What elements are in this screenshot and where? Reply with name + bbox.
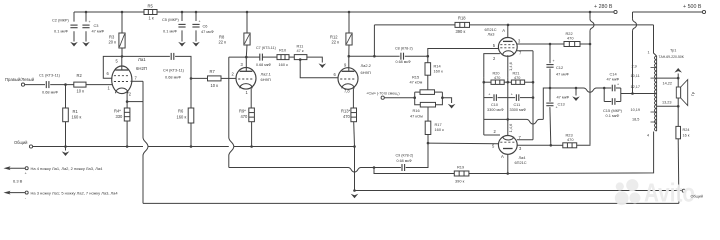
resistor R6: [177, 78, 194, 146]
pin 1 Ла2.1: [246, 88, 252, 108]
svg-text:R9*: R9*: [239, 109, 246, 114]
hop y88 over 590: [584, 88, 597, 92]
heater arrow 2: [4, 191, 29, 200]
wire R24-NFB: [677, 139, 680, 204]
svg-text:+: +: [25, 172, 27, 176]
svg-text:7,8: 7,8: [344, 89, 350, 94]
pin 2 Ла4: [484, 129, 500, 135]
svg-text:A: A: [501, 154, 504, 159]
tap R11 wiper: [299, 58, 338, 77]
capacitor C14: [604, 72, 621, 92]
svg-text:Ла2.1: Ла2.1: [261, 72, 272, 77]
svg-text:160 к: 160 к: [177, 115, 187, 120]
node R22: [549, 43, 552, 46]
capacitor C8: [395, 47, 413, 65]
tap 14,22 wire: [657, 78, 679, 85]
wire node-A line: [546, 87, 584, 89]
svg-text:3300 мкФ: 3300 мкФ: [510, 108, 527, 112]
resistor R18: [455, 16, 470, 35]
capacitor C1: [39, 73, 61, 95]
node gndA: [575, 87, 578, 90]
node C14-left: [603, 87, 606, 90]
svg-text:С1 (КТЗ-11): С1 (КТЗ-11): [39, 73, 61, 78]
wire 280V drop: [590, 12, 594, 144]
svg-text:С9 (К78-2): С9 (К78-2): [396, 154, 414, 158]
pin 1 label: [108, 86, 111, 91]
label Общий right (over watermark): [691, 195, 704, 199]
heater arrow 1: [4, 166, 29, 175]
svg-text:R19: R19: [457, 165, 464, 170]
terminal +500 В: [683, 4, 706, 14]
svg-text:47 к: 47 к: [297, 48, 304, 53]
tap 10,11: [631, 74, 657, 78]
svg-text:0.1 мкФ: 0.1 мкФ: [163, 29, 177, 34]
wire W2 rail: [374, 24, 653, 26]
svg-text:0.68 мкФ: 0.68 мкФ: [256, 63, 271, 67]
svg-text:C3: C3: [94, 23, 99, 28]
svg-text:C6: C6: [203, 24, 208, 29]
node cathode Ла1: [126, 100, 129, 103]
svg-text:Ла2.2: Ла2.2: [361, 63, 372, 68]
resistor R10: [277, 48, 289, 68]
node W2-anode: [373, 55, 376, 58]
capacitor C15: [603, 98, 623, 118]
node gnd-line: [353, 189, 356, 192]
svg-text:R18: R18: [458, 16, 466, 21]
wire anode2-C7: [246, 56, 259, 58]
svg-text:6.3 В: 6.3 В: [13, 179, 23, 184]
watermark avito: [615, 178, 695, 208]
wire input: [25, 84, 45, 86]
svg-text:R20: R20: [493, 72, 500, 76]
wire 500V drop: [633, 12, 637, 94]
node bias-left: [413, 96, 416, 99]
resistor R20: [491, 72, 504, 85]
wire NFB vertical: [143, 81, 148, 203]
wire anode La2.2-C8: [349, 55, 400, 57]
wire grid3: [428, 49, 499, 57]
svg-text:390 к: 390 к: [455, 179, 465, 184]
svg-text:390 к: 390 к: [456, 29, 466, 34]
svg-text:20 к: 20 к: [109, 40, 117, 45]
node bus-R4: [126, 145, 129, 148]
svg-text:+: +: [556, 106, 558, 110]
svg-text:+: +: [617, 83, 619, 87]
resistor R23: [563, 133, 577, 148]
node bias-right: [441, 96, 444, 99]
node grid2: [190, 77, 193, 80]
svg-text:330: 330: [116, 114, 124, 119]
wire tube2-anode-line: [229, 168, 374, 173]
node bus-R1: [64, 145, 67, 148]
node anode Ла2.2: [348, 55, 351, 58]
svg-text:С12: С12: [556, 65, 563, 70]
node anode4: [507, 172, 510, 175]
wire W2-left-drop: [373, 25, 375, 56]
wire crossFB-down: [229, 57, 234, 167]
svg-text:1: 1: [648, 51, 650, 55]
svg-text:Ла3: Ла3: [488, 32, 495, 37]
node C13-bottom: [550, 144, 553, 147]
speaker Гр: [676, 80, 695, 106]
svg-text:470: 470: [241, 114, 249, 119]
node grid4: [427, 142, 430, 145]
svg-text:С10: С10: [491, 103, 498, 107]
svg-text:R5: R5: [148, 4, 154, 9]
svg-text:470: 470: [567, 137, 574, 142]
svg-text:1 к: 1 к: [149, 16, 154, 21]
pin 5 Ла1: [116, 56, 122, 70]
svg-text:1,4,6: 1,4,6: [508, 124, 513, 133]
svg-text:160 к: 160 к: [434, 69, 444, 74]
wire R11-gnd: [307, 57, 322, 62]
wire tap-speaker-top: [677, 78, 679, 87]
wire C1-R2: [50, 84, 74, 86]
vertical k-right: [532, 51, 534, 140]
capacitor C11: [510, 93, 527, 112]
svg-text:На 3 ножку Ла1; 5 ножку Ла2, 7: На 3 ножку Ла1; 5 ножку Ла2, 7 ножку Ла3…: [31, 191, 119, 196]
svg-text:3300 мкФ: 3300 мкФ: [487, 108, 504, 112]
ground R11: [319, 63, 327, 68]
svg-text:10 к: 10 к: [211, 83, 219, 88]
wire anode4-transformer: [508, 132, 654, 174]
svg-text:+ 280 В: + 280 В: [594, 4, 613, 10]
resistor R16 trimmer: [410, 102, 436, 118]
capacitor C4: [163, 53, 185, 80]
tube Ла2.1 6Н9П: [236, 68, 272, 90]
wire R7-tube2: [221, 72, 236, 79]
wire anode1-C4: [122, 55, 170, 57]
svg-text:Правый/Левый: Правый/Левый: [5, 77, 35, 82]
node k-left: [483, 81, 486, 84]
resistor R15 trimmer: [410, 75, 435, 95]
svg-text:Ла1: Ла1: [138, 57, 146, 62]
node bus-R6: [190, 145, 193, 148]
svg-text:47 мкФ: 47 мкФ: [556, 72, 569, 77]
terminal +280 В: [594, 4, 617, 14]
ground C3: [82, 42, 90, 47]
vertical k-left: [483, 78, 485, 135]
capacitor C9: [396, 154, 414, 172]
svg-text:+: +: [199, 20, 201, 24]
wire C9-R17: [406, 143, 428, 167]
resistor R7: [208, 69, 222, 88]
pin 7 Ла4: [517, 135, 533, 140]
wire grid4: [428, 143, 499, 148]
capacitor C6: [192, 12, 213, 42]
wire A3: [502, 25, 508, 38]
svg-text:Тр1: Тр1: [670, 49, 676, 53]
wire y88 cont: [597, 87, 605, 89]
svg-text:На 4 ножку Ла1, Ла2, 2 ножку Л: На 4 ножку Ла1, Ла2, 2 ножку Ла3, Ла4: [31, 166, 104, 171]
node rail-C5: [181, 11, 184, 14]
resistor R19: [454, 165, 469, 184]
ground bus arrow: [62, 147, 70, 157]
resistor R11: [294, 44, 307, 60]
svg-text:0.68 мкФ: 0.68 мкФ: [396, 60, 411, 64]
svg-text:470: 470: [514, 76, 520, 80]
svg-text:10 к: 10 к: [77, 89, 85, 94]
svg-text:470: 470: [343, 114, 351, 119]
tube Ла3 6П21С: [485, 27, 518, 57]
wire NFB bottom: [143, 202, 679, 204]
svg-text:10,11: 10,11: [631, 74, 640, 78]
svg-text:+: +: [511, 93, 513, 97]
svg-text:47 кОм: 47 кОм: [410, 80, 423, 85]
heater text 2: [31, 191, 119, 196]
node rail-280V-drop: [589, 11, 592, 14]
svg-text:47 кОм: 47 кОм: [410, 114, 423, 119]
svg-text:R16: R16: [413, 108, 420, 113]
svg-text:Гр: Гр: [691, 92, 695, 96]
svg-text:С8 (К78-2): С8 (К78-2): [395, 47, 413, 51]
wire pin3-R22: [550, 43, 564, 45]
cathode Ла4 wire: [508, 119, 513, 135]
resistor R24: [676, 126, 690, 138]
pin 5 Ла3: [493, 43, 496, 48]
node box-bottom-mid: [507, 118, 510, 121]
wire ground bus: [33, 146, 355, 148]
ground up: [674, 68, 682, 78]
tap 10,19: [631, 108, 657, 112]
resistor R13*: [341, 108, 357, 147]
wire +500V rail: [633, 11, 703, 13]
anode Ла4: [501, 154, 508, 174]
wire node-R7: [191, 77, 208, 79]
node rail-C6: [195, 11, 198, 14]
svg-text:2,9: 2,9: [632, 65, 637, 69]
svg-text:6П21С: 6П21С: [515, 160, 527, 165]
svg-text:С13: С13: [558, 102, 565, 107]
svg-text:Общий: Общий: [14, 140, 27, 145]
node anode Ла2.1: [245, 56, 248, 59]
wire pin3 Ла4 to R23: [551, 144, 563, 146]
node C8-R14: [427, 55, 430, 58]
node k-right: [532, 81, 535, 84]
svg-text:10,19: 10,19: [631, 108, 641, 112]
node tap-top: [677, 77, 680, 80]
node tap-bottom: [677, 105, 680, 108]
node k-mid: [507, 81, 510, 84]
wire top +280V rail: [74, 11, 614, 13]
wire pot loop: [415, 92, 443, 105]
wire R2-tube: [86, 84, 113, 86]
ground bias: [448, 104, 456, 109]
resistor R4*: [114, 102, 130, 147]
resistor R14: [425, 56, 443, 90]
ground C2: [70, 42, 78, 47]
node input-R1: [64, 83, 67, 86]
svg-text:C5 (МКР): C5 (МКР): [162, 17, 179, 22]
capacitor C10: [487, 93, 504, 112]
node rail-R12: [348, 11, 351, 14]
svg-text:R6: R6: [178, 109, 184, 114]
node C12-C13: [549, 87, 552, 90]
tap 12,17 wire: [631, 85, 641, 89]
svg-text:«См» (-70 В смещ.): «См» (-70 В смещ.): [367, 92, 400, 96]
svg-text:+: +: [89, 20, 91, 24]
svg-text:+ 500 В: + 500 В: [683, 4, 702, 10]
tube Ла4 6П21С: [498, 136, 526, 166]
wire C4-R7node: [175, 56, 191, 78]
resistor R17: [425, 121, 444, 143]
wire R16-R17: [427, 107, 429, 121]
pin 2 Ла1: [127, 92, 132, 102]
svg-text:A: A: [502, 28, 505, 33]
terminal Общий left: [14, 140, 33, 148]
svg-text:470: 470: [494, 76, 500, 80]
svg-text:0.68 мкФ: 0.68 мкФ: [42, 90, 58, 95]
node rail-R3: [121, 11, 124, 14]
svg-text:14,22: 14,22: [663, 82, 673, 86]
pin 3 Ла4: [517, 145, 551, 151]
wire bias-gnd: [442, 98, 451, 103]
svg-text:47 мкФ: 47 мкФ: [607, 77, 620, 82]
node W2-tube3A: [507, 24, 510, 27]
wire R19 branch: [374, 168, 454, 174]
svg-text:R2: R2: [77, 73, 83, 78]
svg-text:160 к: 160 к: [72, 115, 82, 120]
node 500V tap: [631, 92, 634, 95]
svg-text:47 мкФ: 47 мкФ: [92, 29, 105, 34]
svg-text:R1: R1: [73, 109, 79, 114]
svg-text:С11: С11: [514, 103, 521, 107]
wire R23-corner: [577, 143, 590, 146]
resistor R2: [74, 73, 86, 94]
node c-right: [532, 96, 535, 99]
svg-text:R7: R7: [210, 69, 216, 74]
wire C9 segment: [374, 167, 401, 169]
resistor R9*: [239, 108, 254, 147]
wire R19-anode4: [469, 173, 508, 175]
resistor R3: [109, 12, 126, 56]
svg-text:6Н9П: 6Н9П: [361, 70, 371, 75]
wire bottom-up-C12: [543, 88, 546, 119]
terminal input: [5, 77, 35, 86]
wire cap line: [484, 97, 533, 99]
wire tap-R24: [677, 106, 679, 126]
tap 18,5: [632, 118, 657, 123]
svg-text:0.68 мкФ: 0.68 мкФ: [397, 159, 412, 163]
svg-text:160 к: 160 к: [435, 127, 445, 132]
vertical k-mid: [507, 78, 509, 120]
pins 7,8 Ла2.2: [344, 88, 353, 108]
capacitor C2: [52, 12, 78, 42]
tube Ла1 6Н2П: [112, 57, 147, 94]
transformer Тр1 winding: [655, 56, 657, 131]
node bus-R9: [250, 145, 253, 148]
svg-text:47 мкФ: 47 мкФ: [557, 95, 570, 100]
label 6.3V: [13, 179, 23, 184]
svg-text:16 к: 16 к: [683, 134, 690, 138]
terminal bias -70V: [367, 92, 415, 100]
wire speaker-tap: [677, 98, 679, 106]
resistor R12: [330, 12, 352, 56]
wire R13-down: [354, 147, 356, 191]
svg-text:0.1 мкФ: 0.1 мкФ: [606, 113, 620, 118]
pin 7 Ла3: [517, 51, 533, 56]
capacitor C12: [546, 44, 568, 88]
capacitor C7: [256, 46, 276, 67]
tap 2,9: [632, 65, 657, 69]
wire anode2-left: [229, 56, 247, 58]
ground A: [572, 88, 580, 101]
transformer feed top: [648, 25, 657, 56]
svg-text:+: +: [488, 93, 490, 97]
svg-text:C4 (КТЗ-11): C4 (КТЗ-11): [163, 68, 185, 73]
tap 13,23 wire: [657, 101, 679, 107]
tap 4 label: [647, 134, 649, 138]
pin 9 Ла2.2: [344, 56, 349, 71]
wire cathode-NFB: [127, 101, 143, 103]
node rail-R8: [246, 11, 249, 14]
node anode Ла1: [121, 55, 124, 58]
wire box bottom: [484, 119, 544, 124]
svg-text:4: 4: [647, 134, 649, 138]
capacitor C5: [162, 12, 186, 42]
svg-text:470: 470: [567, 36, 574, 41]
pin 2 Ла3: [484, 54, 500, 78]
svg-text:R21: R21: [513, 72, 520, 76]
wire tap1217: [633, 93, 656, 95]
svg-text:ТАН-69-220-50К: ТАН-69-220-50К: [659, 55, 684, 59]
svg-text:С7 (КТЗ-11): С7 (КТЗ-11): [256, 46, 276, 50]
svg-text:R13*: R13*: [341, 109, 351, 114]
svg-text:22 к: 22 к: [332, 40, 340, 45]
wire ground line right: [355, 190, 683, 192]
node fb-split: [373, 166, 376, 169]
ground C6: [192, 42, 200, 47]
svg-text:+: +: [553, 59, 555, 63]
resistor R8: [219, 12, 251, 57]
svg-text:13,23: 13,23: [662, 101, 672, 105]
svg-text:1,4,6: 1,4,6: [508, 62, 513, 71]
wire R10-R11: [289, 56, 294, 58]
resistor R22: [564, 31, 580, 47]
svg-text:12,17: 12,17: [631, 85, 641, 89]
wire R3-pin6: [103, 56, 122, 78]
pin 3 Ла3: [517, 39, 551, 45]
svg-text:0.68 мкФ: 0.68 мкФ: [165, 75, 181, 80]
svg-text:R10: R10: [279, 48, 287, 53]
node bus-R13: [353, 145, 356, 148]
cathode Ла3: [508, 55, 513, 78]
capacitor C3: [82, 12, 104, 42]
svg-text:18,5: 18,5: [632, 118, 639, 122]
wire R20R21 line: [484, 81, 533, 83]
svg-text:6Н2П: 6Н2П: [136, 66, 147, 71]
heater text 1: [31, 166, 104, 171]
wire pair loop: [604, 88, 621, 102]
transformer label: [659, 49, 684, 60]
resistor R1: [63, 85, 82, 147]
resistor R21: [511, 72, 524, 85]
svg-text:160 к: 160 к: [279, 62, 289, 67]
wire C8-node: [405, 55, 428, 57]
svg-text:C2 (МКР): C2 (МКР): [52, 18, 69, 23]
ground mid: [351, 194, 359, 199]
svg-text:R24: R24: [683, 128, 690, 132]
terminal Общий right: [682, 189, 685, 192]
resistor R5: [144, 4, 157, 21]
wire pair out: [621, 93, 633, 95]
wire C7-R10: [263, 56, 278, 58]
capacitor C13: [546, 88, 569, 145]
svg-text:Avito: Avito: [644, 178, 695, 208]
svg-text:0.1 мкФ: 0.1 мкФ: [54, 29, 68, 34]
pin 3 Ла2.1: [241, 57, 247, 71]
ground C5: [178, 42, 186, 47]
